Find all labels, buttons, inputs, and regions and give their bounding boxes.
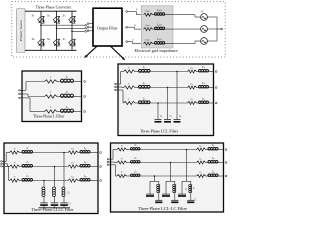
svg-text:Three-Phase Converter: Three-Phase Converter [35,5,72,9]
svg-text:Three-Phase LCL Filter: Three-Phase LCL Filter [140,128,179,133]
svg-text:Three-Phase LLCL Filter: Three-Phase LLCL Filter [31,207,74,212]
svg-text:Lgrid: Lgrid [156,38,162,41]
svg-text:Output Filter: Output Filter [97,26,118,31]
svg-text:rgrid: rgrid [146,24,150,27]
svg-text:rgrid: rgrid [146,9,150,12]
svg-text:Lgrid: Lgrid [156,23,162,26]
svg-text:L: L [65,105,68,109]
svg-text:L: L [65,75,68,79]
svg-text:L: L [65,90,68,94]
svg-text:rgrid: rgrid [146,38,150,41]
svg-text:ib: ib [134,24,136,27]
svg-text:Three-Phase L Filter: Three-Phase L Filter [33,114,65,118]
svg-text:ic: ic [132,38,134,41]
svg-text:Electrical grid impedance: Electrical grid impedance [134,48,177,53]
svg-text:ia: ia [136,8,138,11]
svg-text:Lgrid: Lgrid [156,9,162,12]
svg-text:Primary Source: Primary Source [19,20,23,42]
svg-text:Three-Phase LCL-LC Filter: Three-Phase LCL-LC Filter [138,206,188,211]
